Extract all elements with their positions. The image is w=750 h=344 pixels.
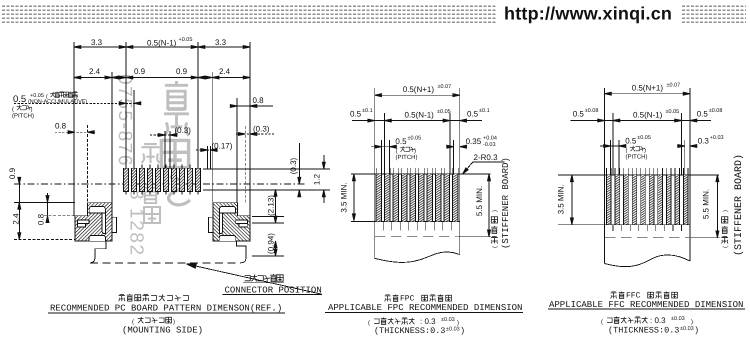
svg-text:CONNECTOR POSITION: CONNECTOR POSITION — [225, 286, 322, 296]
svg-text:): ) — [722, 210, 729, 212]
watermark company chars — [141, 81, 190, 223]
svg-text:±0.03: ±0.03 — [441, 317, 455, 323]
svg-text:5.5 MIN.: 5.5 MIN. — [475, 186, 484, 216]
svg-text:±0.03: ±0.03 — [446, 327, 460, 333]
svg-text:-0.03: -0.03 — [483, 142, 496, 148]
left view title jp — [119, 294, 189, 301]
svg-text:8 1282: 8 1282 — [126, 189, 147, 257]
svg-text:2-R0.3: 2-R0.3 — [474, 153, 499, 162]
fpc title en — [325, 303, 523, 313]
svg-text:0.8: 0.8 — [37, 213, 46, 225]
svg-text:): ) — [492, 210, 499, 212]
connector position label — [223, 274, 323, 296]
svg-text:±0.05: ±0.05 — [437, 109, 451, 115]
svg-text:0.5(N-1): 0.5(N-1) — [147, 39, 177, 48]
svg-text:): ) — [694, 326, 699, 336]
left view mounting side — [122, 317, 203, 336]
pin pad row — [124, 165, 201, 195]
svg-text:3.5 MIN.: 3.5 MIN. — [340, 182, 349, 212]
svg-text:(MOUNTING SIDE): (MOUNTING SIDE) — [122, 326, 203, 336]
svg-text:(NON-ACCUMULATIVE): (NON-ACCUMULATIVE) — [28, 99, 87, 105]
header rule group left — [2, 6, 497, 22]
svg-text:0.5: 0.5 — [13, 94, 26, 105]
left view title en — [48, 304, 285, 314]
svg-text:2.4: 2.4 — [89, 67, 101, 76]
fpc body sides and break — [375, 174, 460, 262]
svg-text:(0.3): (0.3) — [175, 126, 192, 135]
svg-text:0755-876: 0755-876 — [114, 74, 135, 167]
fpc stiffener board note — [491, 157, 511, 249]
svg-text:http://www.xinqi.cn: http://www.xinqi.cn — [504, 4, 672, 24]
ffc title en — [548, 300, 745, 310]
svg-text:): ) — [457, 320, 459, 327]
ffc dim 5.5 MIN — [702, 175, 719, 238]
svg-text:(THICKNESS:0.3: (THICKNESS:0.3 — [374, 326, 445, 336]
svg-text:(: ( — [492, 246, 499, 248]
svg-text:: 0.3: : 0.3 — [420, 317, 436, 326]
dim (0.3) vertical — [289, 143, 301, 197]
ffc dim 0.5 pitch — [600, 135, 651, 161]
svg-text:(0.17): (0.17) — [212, 142, 233, 151]
ffc dim 3.5 MIN — [557, 175, 574, 225]
dim 2.4 / 0.9 / 0.9 / 2.4 second row — [74, 67, 250, 79]
svg-text:+0.04: +0.04 — [483, 136, 497, 142]
svg-text:(: ( — [132, 319, 134, 326]
svg-text:0.5: 0.5 — [625, 137, 637, 146]
svg-text:3.5 MIN.: 3.5 MIN. — [557, 184, 566, 214]
fpc stiffener hidden line — [375, 236, 491, 238]
ffc title jp — [611, 292, 678, 301]
svg-text:±0.07: ±0.07 — [667, 83, 681, 89]
svg-text:0.5(N+1): 0.5(N+1) — [403, 85, 435, 94]
svg-text:): ) — [31, 106, 33, 113]
svg-text:(: ( — [626, 147, 628, 154]
svg-text:(: ( — [396, 148, 398, 155]
svg-text:0.8: 0.8 — [55, 122, 67, 131]
svg-text:±0.05: ±0.05 — [666, 109, 680, 115]
dim 1.2 vertical — [313, 155, 326, 203]
svg-text:+0.05: +0.05 — [179, 37, 193, 43]
dim (0.3) mid pad — [150, 126, 191, 137]
svg-text:0.5: 0.5 — [395, 137, 407, 146]
dim (0.17) — [196, 142, 233, 152]
svg-text:(STIFFENER BOARD): (STIFFENER BOARD) — [501, 157, 511, 249]
fpc 2-R0.3 leader — [461, 153, 504, 175]
svg-text:1.2: 1.2 — [313, 173, 322, 185]
fpc dim 0.5 pitch — [371, 136, 421, 162]
ffc thickness note — [601, 316, 699, 336]
ffc dim 0.3 — [677, 135, 724, 148]
fpc extension lines — [375, 88, 460, 174]
svg-text:0.5: 0.5 — [573, 110, 585, 119]
ffc dim 0.5(N+1) — [605, 83, 691, 96]
svg-text:+0.03: +0.03 — [710, 135, 724, 141]
svg-text:(PITCH): (PITCH) — [12, 113, 34, 120]
svg-text:0.8: 0.8 — [253, 96, 265, 105]
svg-text:±0.1: ±0.1 — [479, 108, 490, 114]
ffc body sides and break — [605, 175, 691, 267]
svg-text:(: ( — [722, 246, 729, 248]
svg-text:(: ( — [601, 319, 603, 326]
anchor pad right (mirror) — [208, 203, 250, 241]
dim (0.3) right — [236, 125, 274, 136]
dim (2.13) vertical — [267, 189, 278, 223]
svg-text:2.4: 2.4 — [12, 213, 21, 225]
svg-text:(0.3): (0.3) — [253, 125, 270, 134]
dim 0.8 left — [55, 122, 95, 134]
fpc dim 0.35 — [446, 136, 497, 149]
connector body outline bottom — [90, 241, 246, 263]
svg-text:): ) — [173, 319, 175, 326]
ffc extension lines — [605, 88, 691, 175]
anchor pad left — [75, 203, 117, 241]
fpc finger block — [351, 168, 490, 231]
svg-text:±0.03: ±0.03 — [680, 326, 694, 332]
ffc dim 0.5 / 0.5(N-1) / 0.5 — [571, 108, 723, 122]
dim (0.94) vertical — [267, 233, 278, 256]
ffc stiffener hidden line — [605, 237, 720, 239]
svg-text:0.5: 0.5 — [697, 110, 709, 119]
svg-text:0.5: 0.5 — [350, 110, 362, 119]
dim 0.5 pitch non-accumulative — [12, 92, 141, 120]
svg-text:0.5: 0.5 — [467, 110, 479, 119]
svg-text:±0.07: ±0.07 — [438, 84, 452, 90]
dim 0.8 right — [230, 96, 273, 108]
svg-text:: 0.3: : 0.3 — [650, 316, 666, 325]
watermark phone digits — [114, 74, 147, 257]
connector mating face hidden line — [14, 183, 305, 185]
svg-text:(: ( — [368, 320, 370, 327]
left view extension lines — [74, 42, 250, 216]
svg-text:(PITCH): (PITCH) — [626, 154, 648, 161]
svg-text:3.3: 3.3 — [215, 38, 227, 47]
svg-text:0.9: 0.9 — [134, 67, 146, 76]
svg-text:APPLICABLE FPC RECOMMENDED DIM: APPLICABLE FPC RECOMMENDED DIMENSION — [328, 303, 522, 313]
fpc dim 3.5 MIN — [340, 174, 356, 221]
svg-text:±0.03: ±0.03 — [671, 316, 685, 322]
svg-text:RECOMMENDED PC BOARD PATTERN D: RECOMMENDED PC BOARD PATTERN DIMENSON(RE… — [50, 304, 282, 314]
svg-text:(PITCH): (PITCH) — [396, 154, 418, 161]
svg-text:±0.1: ±0.1 — [362, 108, 373, 114]
svg-text:0.9: 0.9 — [176, 67, 188, 76]
svg-text:): ) — [414, 148, 416, 155]
svg-text:2.4: 2.4 — [219, 67, 231, 76]
left margin vertical dims 0.9 / 2.4 / 0.8 — [8, 167, 75, 239]
fpc dim 0.5 / 0.5(N-1) / 0.5 — [350, 108, 490, 122]
svg-text:0.5(N-1): 0.5(N-1) — [405, 111, 435, 120]
ffc finger block — [558, 168, 719, 231]
svg-text:0.5(N-1): 0.5(N-1) — [633, 111, 663, 120]
right side extension lines — [203, 169, 330, 256]
svg-text:±0.08: ±0.08 — [585, 108, 599, 114]
svg-text:(STIFFENER BOARD): (STIFFENER BOARD) — [733, 154, 745, 256]
fpc thickness note — [368, 317, 465, 336]
svg-text:0.35: 0.35 — [466, 137, 482, 146]
svg-text:5.5 MIN.: 5.5 MIN. — [702, 189, 711, 219]
svg-text:0.9: 0.9 — [8, 167, 17, 179]
svg-text:3.3: 3.3 — [91, 38, 103, 47]
svg-text:0.5(N+1): 0.5(N+1) — [632, 84, 664, 93]
svg-text:(: ( — [12, 106, 14, 113]
svg-text:APPLICABLE FFC RECOMMENDED DIM: APPLICABLE FFC RECOMMENDED DIMENSION — [549, 300, 743, 310]
fpc dim 5.5 MIN — [475, 174, 491, 237]
svg-text:0.3: 0.3 — [698, 137, 710, 146]
svg-text:±0.05: ±0.05 — [637, 135, 651, 141]
svg-text:): ) — [691, 319, 693, 326]
svg-text:): ) — [644, 147, 646, 154]
svg-text:): ) — [460, 326, 465, 336]
svg-text:(THICKNESS:0.3: (THICKNESS:0.3 — [608, 326, 679, 336]
svg-text:(0.94): (0.94) — [267, 233, 276, 254]
fpc dim 0.5(N+1) — [375, 84, 460, 97]
dim 3.3 / 0.5(N-1) / 3.3 top row — [74, 37, 250, 49]
svg-text:±0.05: ±0.05 — [408, 136, 422, 142]
connector position leader — [186, 262, 322, 294]
header rule group right — [682, 6, 746, 22]
ffc stiffener board note — [721, 154, 745, 256]
svg-text:(2.13): (2.13) — [267, 195, 276, 216]
svg-text:(0.3): (0.3) — [289, 157, 298, 174]
fpc title jp — [385, 295, 452, 304]
svg-text:±0.08: ±0.08 — [709, 108, 723, 114]
